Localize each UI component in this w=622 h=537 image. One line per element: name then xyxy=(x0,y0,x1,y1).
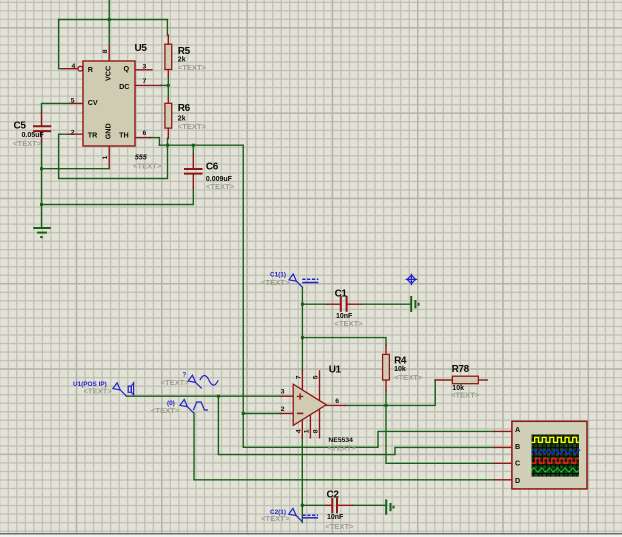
pin stub C2 right xyxy=(338,504,353,506)
generator ? sine squiggle xyxy=(200,376,218,386)
wire TH net horizontal xyxy=(159,144,243,146)
svg-text:<TEXT>: <TEXT> xyxy=(334,319,363,328)
svg-text:TH: TH xyxy=(119,131,129,140)
wire R5 top link xyxy=(166,20,168,36)
scope trace A yellow square wave xyxy=(532,437,579,442)
pin stub R4 bottom xyxy=(385,380,387,391)
pin stub R78 right xyxy=(478,379,487,381)
svg-text:5: 5 xyxy=(312,375,319,379)
svg-text:<TEXT>: <TEXT> xyxy=(451,390,480,399)
wire A feed xyxy=(243,431,494,447)
wire C6 top link xyxy=(192,145,194,154)
svg-text:7: 7 xyxy=(295,375,302,379)
node junction C1 left xyxy=(301,303,304,306)
pin stub 555 pin8 VCC xyxy=(108,46,110,61)
wire pin4 down to C2 xyxy=(301,438,303,523)
wire op-amp output to R78 xyxy=(345,380,435,405)
svg-text:<TEXT>: <TEXT> xyxy=(84,387,113,396)
pin stub scope B xyxy=(494,446,512,448)
wire C2 right to ground xyxy=(352,504,385,506)
svg-text:A: A xyxy=(515,425,520,434)
pin stub opamp pin8 xyxy=(319,409,321,438)
pin stub 555 pin4 R xyxy=(63,68,77,70)
svg-text:8: 8 xyxy=(312,429,319,433)
ground symbol (555/C5 net) xyxy=(33,228,51,237)
wire C5 bottom to ground xyxy=(41,142,43,228)
pin stub R6 top xyxy=(167,98,169,103)
svg-text:<TEXT>: <TEXT> xyxy=(261,278,290,287)
svg-text:2: 2 xyxy=(281,406,285,413)
wire R5 bottom to R6 top xyxy=(167,77,169,99)
node junction pin3/B feed xyxy=(217,395,220,398)
node junction pin7/R5R6 xyxy=(167,84,170,87)
wire TH elbow xyxy=(150,138,159,146)
svg-text:10nF: 10nF xyxy=(327,514,344,521)
node junction C5/C6 bottom wire xyxy=(40,203,43,206)
wire pin4 drop xyxy=(59,20,63,69)
svg-text:<TEXT>: <TEXT> xyxy=(13,139,42,148)
pin stub scope C xyxy=(494,462,512,464)
pin stub opamp pin1 xyxy=(309,414,311,438)
op-amp U1 triangle xyxy=(293,384,326,425)
pin stub opamp pin4 xyxy=(301,419,303,438)
pin bubble 555 pin4 xyxy=(78,66,83,71)
wire C feed xyxy=(386,405,495,463)
svg-text:U5: U5 xyxy=(135,43,148,54)
resistor R6 xyxy=(165,103,172,128)
pin stub R4 top xyxy=(385,345,387,354)
node junction C5/pin1 wire xyxy=(40,167,43,170)
svg-text:GND: GND xyxy=(104,123,113,139)
svg-text:3: 3 xyxy=(143,63,147,70)
pin stub scope D xyxy=(494,479,512,481)
pin stub R78 left xyxy=(435,379,453,381)
svg-text:R6: R6 xyxy=(178,103,191,114)
oscilloscope screen xyxy=(532,435,579,477)
svg-text:U1: U1 xyxy=(329,364,342,375)
pin stub opamp pin7 xyxy=(301,371,303,390)
wire VCC rail top xyxy=(59,19,168,21)
wire pin3 input xyxy=(126,395,280,397)
origin marker (blue crosshair) xyxy=(406,274,418,286)
pin stub 555 pin3 Q xyxy=(135,69,152,71)
svg-text:R: R xyxy=(88,65,94,74)
svg-text:6: 6 xyxy=(143,130,147,137)
svg-text:B: B xyxy=(515,442,520,451)
pin stub scope A xyxy=(494,430,512,432)
ground symbol right-facing (C1 net) xyxy=(411,296,418,312)
svg-text:C: C xyxy=(515,459,520,468)
svg-text:<TEXT>: <TEXT> xyxy=(328,443,357,452)
svg-text:<TEXT>: <TEXT> xyxy=(178,63,207,72)
wire C1 right to ground xyxy=(361,303,410,305)
node junction C2 net xyxy=(301,504,304,507)
resistor R78 xyxy=(452,376,478,384)
svg-text:C1: C1 xyxy=(335,288,348,299)
wire R4 top rail xyxy=(302,338,386,346)
scope trace C red square wave xyxy=(532,458,579,463)
pin stub 555 pin6 TH xyxy=(135,137,150,139)
wire R4 bottom link xyxy=(385,391,387,406)
pin stub 555 pin5 CV xyxy=(70,102,84,104)
op-amp plus sign xyxy=(297,393,303,399)
wire pin2 tap xyxy=(243,413,280,415)
pin stub R5 bottom xyxy=(167,70,169,78)
svg-text:8: 8 xyxy=(102,49,109,53)
pin stub opamp pin6 output xyxy=(326,404,345,406)
pin stub opamp pin2 xyxy=(280,413,293,415)
svg-text:VCC: VCC xyxy=(104,66,113,81)
svg-text:4: 4 xyxy=(72,63,76,70)
pin stub C1 left xyxy=(327,303,340,305)
wire B feed xyxy=(218,396,494,454)
svg-text:C6: C6 xyxy=(206,162,219,173)
window bottom edge xyxy=(0,533,622,535)
node junction pin2 tap xyxy=(242,412,245,415)
svg-text:<TEXT>: <TEXT> xyxy=(394,373,423,382)
pin stub 555 pin1 GND xyxy=(108,146,110,168)
resistor R4 xyxy=(383,354,390,380)
svg-text:D: D xyxy=(515,476,520,485)
ground symbol right-facing (C2 net) xyxy=(386,499,393,514)
pin stub 555 pin7 DC xyxy=(135,84,161,86)
svg-text:<TEXT>: <TEXT> xyxy=(178,122,207,131)
pin stub C2 left xyxy=(326,504,331,506)
svg-text:1: 1 xyxy=(303,429,310,433)
generator ? (sine) arrow icon xyxy=(188,375,202,388)
svg-text:5: 5 xyxy=(71,97,75,104)
pin stub C5 top xyxy=(41,112,43,125)
svg-text:<TEXT>: <TEXT> xyxy=(151,406,180,415)
pin stub opamp pin5 xyxy=(319,371,321,401)
node junction R4/output/C feed xyxy=(385,404,388,407)
svg-text:TR: TR xyxy=(88,131,98,140)
svg-text:DC: DC xyxy=(119,82,129,91)
svg-text:R4: R4 xyxy=(394,355,407,366)
svg-text:4: 4 xyxy=(295,429,302,433)
pin stub R6 bottom xyxy=(167,128,169,138)
pin stub 555 pin2 TR xyxy=(68,133,83,135)
pin stub opamp pin3 xyxy=(280,395,293,397)
node junction R4 top wire xyxy=(301,336,304,339)
wire pin7 net vertical xyxy=(301,287,303,371)
op-amp minus sign xyxy=(297,412,303,414)
wire C1 left xyxy=(302,303,327,305)
generator C1(1) DC symbol xyxy=(302,278,318,280)
resistor R5 xyxy=(165,44,172,69)
wire CV to C5 xyxy=(42,103,70,112)
pin stub C6 bottom xyxy=(192,174,194,188)
svg-text:6: 6 xyxy=(335,398,339,405)
wire top vertical to pin8 xyxy=(108,0,110,46)
svg-text:C2: C2 xyxy=(327,489,340,500)
svg-text:<TEXT>: <TEXT> xyxy=(261,514,290,523)
oscilloscope body xyxy=(512,421,587,489)
generator U1(POS IP) speaker icon xyxy=(128,383,133,395)
pin stub C6 top xyxy=(192,154,194,168)
wire C2 left xyxy=(302,504,326,506)
svg-text:1: 1 xyxy=(102,156,109,160)
svg-text:7: 7 xyxy=(143,78,147,85)
generator C2(1) DC symbol xyxy=(303,514,319,516)
capacitor C5 plates xyxy=(33,126,51,131)
pin stub C5 bottom xyxy=(41,132,43,142)
generator C1(1) arrow icon xyxy=(289,274,303,287)
node junction TR loop x R6 xyxy=(166,144,169,147)
wire C6 bottom rail xyxy=(42,188,194,205)
555 timer U5 body xyxy=(83,61,135,146)
svg-text:555: 555 xyxy=(135,153,148,162)
generator (0) arrow icon xyxy=(180,400,194,413)
svg-text:C5: C5 xyxy=(14,121,27,132)
svg-text:3: 3 xyxy=(281,389,285,396)
capacitor C6 plates xyxy=(184,169,203,174)
svg-text:<TEXT>: <TEXT> xyxy=(161,378,190,387)
scope trace B blue sine xyxy=(532,450,580,454)
generator C2(1) arrow icon xyxy=(289,508,303,521)
capacitor C2 plates xyxy=(332,498,337,514)
svg-text:2: 2 xyxy=(71,129,75,136)
capacitor C1 plates xyxy=(341,296,347,312)
node junction C6 top xyxy=(192,144,195,147)
generator U1(POS IP) arrow icon xyxy=(113,383,127,396)
node junction VCC rail xyxy=(108,18,111,21)
svg-text:R78: R78 xyxy=(452,364,470,375)
wire TR loop xyxy=(59,134,168,178)
svg-text:<TEXT>: <TEXT> xyxy=(133,161,162,170)
svg-text:R5: R5 xyxy=(178,46,191,57)
pin stub R5 top xyxy=(167,35,169,44)
wire TH long vertical xyxy=(242,145,244,447)
svg-text:CV: CV xyxy=(88,98,98,107)
svg-text:<TEXT>: <TEXT> xyxy=(325,522,354,531)
wire pin1 to ground rail xyxy=(42,168,110,170)
wire D feed xyxy=(194,413,495,480)
scope trace D green triangle wave xyxy=(532,468,579,472)
generator (0) pulse squiggle xyxy=(193,402,208,410)
pin stub C1 right xyxy=(348,303,362,305)
svg-text:<TEXT>: <TEXT> xyxy=(206,182,235,191)
wire pin7 link xyxy=(161,84,169,86)
svg-text:Q: Q xyxy=(124,64,130,73)
